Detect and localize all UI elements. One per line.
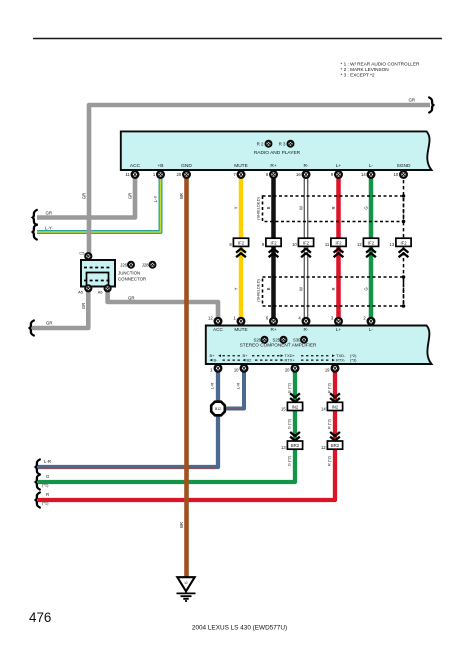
- svg-text:20: 20: [177, 172, 182, 177]
- junction connector caption: [118, 271, 146, 282]
- svg-text:12: 12: [357, 242, 362, 247]
- svg-text:B12: B12: [215, 407, 221, 411]
- svg-text:14: 14: [321, 406, 326, 411]
- svg-text:IF2: IF2: [270, 240, 277, 245]
- svg-text:G: G: [364, 287, 369, 290]
- connector BR2 row: [281, 432, 343, 450]
- svg-text:R 2: R 2: [257, 142, 264, 147]
- break mark GR right: [429, 98, 433, 113]
- svg-text:10: 10: [234, 368, 239, 373]
- svg-text:A6: A6: [98, 290, 104, 295]
- ground symbol IJ: [177, 577, 196, 601]
- svg-text:R (*2): R (*2): [328, 382, 332, 393]
- svg-text:IF2: IF2: [368, 240, 375, 245]
- svg-text:4: 4: [298, 316, 301, 321]
- svg-text:IN2: IN2: [332, 405, 339, 410]
- svg-text:R (*2): R (*2): [328, 455, 332, 466]
- svg-text:IF2: IF2: [303, 240, 310, 245]
- svg-text:RTX+: RTX+: [285, 357, 296, 362]
- svg-text:16: 16: [296, 172, 301, 177]
- junction connector ids J26 J28: [120, 261, 156, 269]
- connector IN2 row: [281, 393, 343, 411]
- wire BR radio GND to ground: [184, 174, 189, 578]
- svg-text:12: 12: [321, 445, 326, 450]
- svg-text:BR: BR: [179, 522, 184, 528]
- svg-text:L-R: L-R: [236, 383, 241, 390]
- svg-text:R+: R+: [270, 163, 276, 169]
- svg-text:B: B: [266, 206, 271, 209]
- wire R amp pin19 to left edge: [38, 369, 335, 500]
- svg-text:476: 476: [29, 610, 51, 625]
- svg-text:GR: GR: [128, 296, 135, 301]
- svg-text:B2: B2: [247, 357, 253, 362]
- svg-text:+B: +B: [157, 163, 163, 169]
- svg-text:W: W: [299, 287, 304, 291]
- svg-text:R-: R-: [303, 163, 308, 169]
- svg-text:14: 14: [361, 172, 366, 177]
- svg-text:R 3: R 3: [279, 142, 286, 147]
- svg-text:IJ: IJ: [184, 580, 187, 585]
- radio pin row (labels, numbers, pins): [125, 163, 411, 179]
- svg-text:BR2: BR2: [291, 443, 300, 448]
- break mark G left: [36, 475, 40, 490]
- svg-text:R+: R+: [270, 327, 276, 332]
- svg-text:CONNECTOR: CONNECTOR: [118, 277, 146, 282]
- wire L-R amp pin1 to left edge: [38, 369, 218, 468]
- svg-text:(*3): (*3): [350, 357, 357, 362]
- svg-text:G (*2): G (*2): [288, 418, 292, 429]
- svg-text:L-R: L-R: [44, 459, 51, 464]
- wire L-R amp pin10 to node B12: [218, 369, 244, 409]
- svg-text:* 1 : W/ REAR AUDIO CONTROLLER: * 1 : W/ REAR AUDIO CONTROLLER: [341, 62, 421, 67]
- svg-text:2: 2: [363, 316, 366, 321]
- svg-text:(SHIELDED): (SHIELDED): [255, 278, 260, 301]
- break mark GR left upper: [33, 210, 37, 225]
- svg-text:10: 10: [292, 242, 297, 247]
- wire GR top run to right edge: [89, 105, 430, 253]
- svg-text:STEREO COMPONENT AMPLIFIER: STEREO COMPONENT AMPLIFIER: [240, 343, 317, 348]
- svg-text:ACC: ACC: [213, 327, 224, 332]
- svg-text:IF2: IF2: [400, 240, 407, 245]
- svg-text:GR: GR: [82, 193, 87, 199]
- svg-text:L-Y: L-Y: [153, 196, 158, 203]
- wire R L+ radio to amplifier: [336, 174, 341, 318]
- svg-text:1: 1: [153, 172, 156, 177]
- wire Y mute radio to amplifier: [239, 174, 244, 318]
- svg-text:L-: L-: [369, 327, 374, 332]
- svg-text:(SHIELDED): (SHIELDED): [255, 196, 260, 219]
- junction connector bottom pins: [78, 284, 112, 294]
- svg-text:MUTE: MUTE: [234, 163, 248, 169]
- svg-text:6: 6: [266, 316, 269, 321]
- svg-text:RADIO AND PLAYER: RADIO AND PLAYER: [254, 150, 301, 156]
- connector IF2 row with pin numbers and arrows: [229, 238, 411, 257]
- break mark R left: [36, 493, 40, 508]
- svg-text:IN2: IN2: [292, 405, 299, 410]
- svg-text:R: R: [331, 206, 336, 209]
- svg-text:2004 LEXUS LS 430 (EWD577U): 2004 LEXUS LS 430 (EWD577U): [192, 625, 287, 632]
- wire B R+ radio to amplifier: [271, 174, 276, 318]
- break mark GR left lower: [30, 321, 34, 336]
- svg-text:G: G: [364, 206, 369, 209]
- svg-text:B: B: [266, 287, 271, 290]
- wire GR junction connector to left edge: [32, 288, 88, 328]
- svg-text:A5: A5: [78, 290, 84, 295]
- wire GR radio ACC to left edge: [37, 174, 135, 218]
- svg-text:11: 11: [325, 242, 330, 247]
- amplifier top pin row: [208, 316, 375, 333]
- svg-text:IF2: IF2: [238, 240, 245, 245]
- svg-text:9: 9: [331, 172, 334, 177]
- svg-text:* 3 : EXCEPT *2: * 3 : EXCEPT *2: [341, 73, 375, 78]
- svg-text:19: 19: [325, 368, 330, 373]
- svg-text:GR: GR: [46, 211, 53, 216]
- svg-text:JUNCTION: JUNCTION: [118, 271, 140, 276]
- svg-text:(*1): (*1): [42, 501, 49, 506]
- svg-text:GR: GR: [409, 98, 416, 103]
- wire L-Y radio +B to left edge: [37, 174, 161, 232]
- svg-text:IF2: IF2: [335, 240, 342, 245]
- svg-text:R: R: [46, 492, 49, 497]
- svg-text:G: G: [46, 474, 50, 479]
- svg-text:B-: B-: [214, 357, 219, 362]
- svg-text:L-R: L-R: [210, 383, 215, 390]
- wire W R- radio to amplifier: [304, 174, 309, 318]
- svg-text:G (*2): G (*2): [288, 455, 292, 466]
- svg-text:GR: GR: [46, 321, 53, 326]
- break mark L-R left: [36, 460, 40, 475]
- wire GR junction connector to amplifier ACC: [108, 288, 218, 318]
- svg-text:1: 1: [233, 316, 236, 321]
- svg-text:Y: Y: [234, 206, 239, 209]
- svg-text:R-: R-: [304, 327, 309, 332]
- svg-text:10: 10: [394, 172, 399, 177]
- svg-text:Y: Y: [234, 287, 239, 290]
- svg-text:GR: GR: [128, 193, 133, 199]
- svg-text:G (*2): G (*2): [288, 382, 292, 393]
- stereo component amplifier box: [206, 326, 432, 365]
- svg-text:J26: J26: [120, 263, 127, 268]
- svg-text:RTX-: RTX-: [336, 357, 346, 362]
- svg-text:12: 12: [208, 316, 213, 321]
- svg-text:L+: L+: [336, 327, 342, 332]
- svg-text:L-Y: L-Y: [45, 226, 52, 231]
- shield junction dots: [402, 194, 406, 308]
- svg-text:8: 8: [229, 242, 232, 247]
- svg-text:3: 3: [331, 316, 334, 321]
- note *1 *2 *3 legend: [341, 62, 421, 78]
- svg-text:ACC: ACC: [130, 163, 141, 169]
- shield box upper (dashed): [263, 196, 404, 222]
- radio internal connector labels R2 R3: [257, 140, 295, 148]
- svg-text:BR: BR: [179, 193, 184, 199]
- wire SGND shield drain (dashed): [403, 174, 405, 306]
- radio and player box: [121, 131, 432, 170]
- svg-text:SGND: SGND: [397, 163, 411, 169]
- svg-text:15: 15: [281, 406, 286, 411]
- node B12 junction: [211, 402, 225, 416]
- wire G L- radio to amplifier: [369, 174, 374, 318]
- svg-text:J28: J28: [142, 263, 149, 268]
- svg-text:BR2: BR2: [331, 443, 340, 448]
- svg-text:(*1): (*1): [42, 483, 49, 488]
- svg-text:R (*2): R (*2): [328, 418, 332, 429]
- junction connector box: [81, 260, 115, 287]
- svg-text:GR: GR: [81, 303, 86, 309]
- amp internal connector labels S26 S25 S30: [254, 336, 308, 344]
- svg-text:L+: L+: [336, 163, 342, 169]
- amp internal bus row B+/TXD: [210, 353, 358, 358]
- shield box lower (dashed): [263, 277, 404, 306]
- amp internal bus row B-/RTX: [210, 357, 358, 362]
- svg-text:20: 20: [285, 368, 290, 373]
- svg-text:13: 13: [281, 445, 286, 450]
- svg-text:MUTE: MUTE: [234, 327, 247, 332]
- svg-text:L-: L-: [369, 163, 374, 169]
- amplifier bottom pin row: [210, 364, 339, 373]
- break mark L-Y left: [33, 225, 37, 240]
- svg-text:13: 13: [390, 242, 395, 247]
- svg-text:GND: GND: [181, 163, 192, 169]
- junction connector top pin: [79, 251, 92, 261]
- svg-text:* 2 : MARK LEVINSON: * 2 : MARK LEVINSON: [341, 67, 389, 72]
- svg-text:8: 8: [266, 172, 269, 177]
- svg-text:R: R: [331, 287, 336, 290]
- svg-text:C5: C5: [79, 251, 85, 256]
- svg-text:11: 11: [125, 172, 130, 177]
- svg-text:7: 7: [233, 172, 236, 177]
- page top rule: [33, 38, 442, 40]
- svg-text:W: W: [299, 206, 304, 210]
- wire G amp pin20 to left edge: [38, 369, 295, 482]
- svg-text:9: 9: [262, 242, 265, 247]
- svg-text:1: 1: [210, 368, 213, 373]
